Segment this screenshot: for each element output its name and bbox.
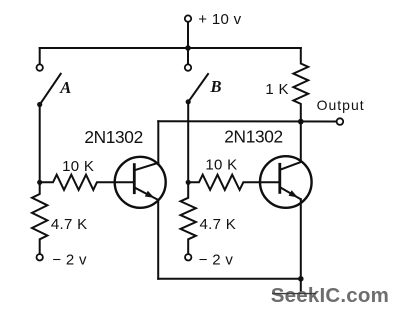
resistor R2 4.7K (left) <box>32 182 47 254</box>
switch A <box>37 64 61 107</box>
transistor Q2 2N1302 <box>260 156 312 208</box>
svg-text:10 K: 10 K <box>205 157 237 174</box>
resistor R5 1K <box>293 48 308 122</box>
node: B input junction <box>186 180 191 185</box>
wire: Q1 emitter down <box>157 200 159 279</box>
node: A input junction <box>37 180 42 185</box>
wire: collector/output line <box>158 120 336 122</box>
svg-text:2N1302: 2N1302 <box>84 127 142 147</box>
svg-text:10 K: 10 K <box>62 158 94 175</box>
svg-text:4.7 K: 4.7 K <box>200 216 237 233</box>
wire: switch A to node <box>39 105 41 183</box>
wire: Q1 collector up <box>157 121 159 163</box>
wire: bus to switch A <box>39 48 41 64</box>
svg-text:Output: Output <box>317 97 365 113</box>
svg-text:A: A <box>59 78 71 97</box>
resistor R1 10K (left, to Q1 base) <box>40 175 135 190</box>
wire: emitter stub down <box>300 279 302 291</box>
svg-text:+ 10 v: + 10 v <box>198 11 241 28</box>
wire: bottom emitter bus <box>158 278 301 280</box>
node: emitter junction <box>298 276 304 282</box>
svg-text:1 K: 1 K <box>265 81 288 98</box>
wire: artifact line through watermark <box>272 293 316 295</box>
node: bus junction <box>185 45 191 51</box>
wire: Q2 collector up <box>300 122 302 162</box>
terminal +10v <box>185 15 191 48</box>
wire: Q2 emitter down <box>300 199 302 279</box>
terminal -2v (left) <box>37 254 43 260</box>
node: output junction <box>298 119 304 125</box>
svg-text:− 2 v: − 2 v <box>199 251 234 268</box>
svg-text:2N1302: 2N1302 <box>224 127 282 147</box>
svg-text:B: B <box>210 77 222 96</box>
wire: bus to switch B <box>187 48 189 64</box>
svg-text:− 2 v: − 2 v <box>52 252 87 269</box>
svg-text:4.7 K: 4.7 K <box>51 216 88 233</box>
resistor R3 10K (right, to Q2 base) <box>188 175 280 190</box>
svg-text:SeekIC.com: SeekIC.com <box>271 284 389 307</box>
terminal -2v (right) <box>185 254 191 260</box>
wire: +10V top bus <box>40 47 301 49</box>
wire: switch B to node <box>187 102 189 183</box>
resistor R4 4.7K (right) <box>181 182 196 254</box>
transistor Q1 2N1302 <box>115 157 166 208</box>
terminal Output <box>337 118 344 125</box>
switch B <box>185 64 208 104</box>
